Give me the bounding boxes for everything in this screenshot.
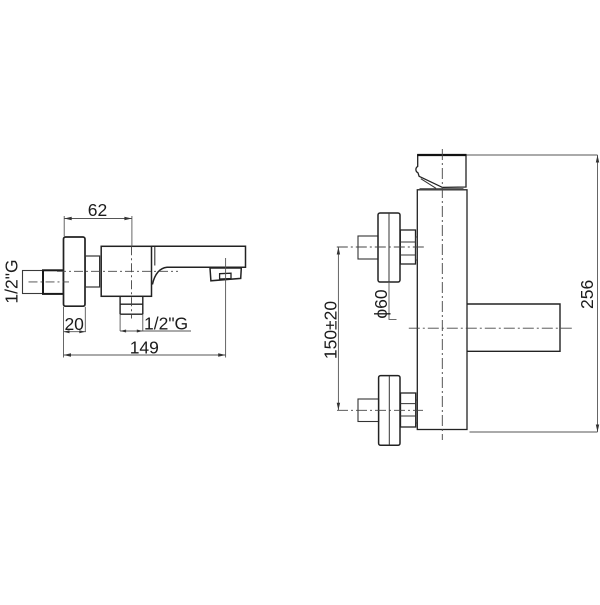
- body/spout joint line: [154, 246, 156, 265]
- dimension 150±20: [337, 247, 339, 410]
- svg-text:256: 256: [577, 280, 597, 309]
- bottom union wall flange: [379, 376, 400, 446]
- spout (side view): [152, 246, 246, 284]
- top union wall flange: [378, 213, 400, 282]
- body vertical centerline (side view): [131, 246, 133, 318]
- bottom union flange face line: [388, 376, 390, 446]
- top union adapter: [416, 237, 418, 260]
- bottom union centerline: [337, 409, 423, 411]
- wall flange (side view): [64, 237, 86, 306]
- handle lever (front view): [416, 155, 466, 187]
- mixer body (front view): [417, 190, 467, 430]
- aerator axis / 149 extension line: [225, 258, 227, 358]
- handle lever underside line: [421, 179, 436, 189]
- main axis centerline (side view): [57, 270, 178, 272]
- spacer bushing (side view): [85, 256, 99, 287]
- dimension 149: [64, 354, 226, 356]
- bottom union pipe: [358, 399, 379, 422]
- hand-shower outlet (side view): [120, 296, 143, 314]
- inlet axis centerline (side view): [29, 281, 70, 283]
- aerator outlet insert: [220, 273, 231, 279]
- spout (front view): [467, 304, 560, 351]
- mixer body (side view): [101, 246, 151, 296]
- bottom union adapter: [416, 400, 418, 423]
- label φ60 leader: [389, 282, 397, 319]
- top union centerline: [337, 246, 424, 248]
- handle top edge (thick): [417, 154, 466, 156]
- top union flange face line: [388, 213, 390, 282]
- handle collar: [420, 188, 464, 190]
- dimension 1/2"G (outlet): [120, 314, 191, 331]
- spout centerline (front view): [409, 327, 574, 329]
- dimension 256: [467, 155, 598, 432]
- svg-text:1/2"G: 1/2"G: [144, 313, 188, 333]
- bottom union nut: [401, 393, 416, 427]
- union nut (side view): [43, 270, 64, 294]
- svg-text:1/2"G: 1/2"G: [2, 259, 22, 303]
- spout tip aerator (side view): [210, 268, 241, 281]
- inlet pipe (side view): [23, 271, 44, 294]
- svg-text:ϕ60: ϕ60: [371, 289, 391, 319]
- dimension 20: [64, 307, 86, 358]
- top union nut: [400, 230, 415, 264]
- bottom union nut facets: [401, 404, 416, 416]
- svg-text:149: 149: [130, 338, 159, 358]
- top union nut facets: [400, 242, 415, 255]
- svg-text:150±20: 150±20: [321, 301, 341, 360]
- svg-text:62: 62: [88, 200, 107, 220]
- svg-text:20: 20: [64, 314, 84, 334]
- top union pipe: [358, 236, 378, 259]
- body centerline (front view): [441, 149, 443, 440]
- dimension 62: [64, 216, 132, 246]
